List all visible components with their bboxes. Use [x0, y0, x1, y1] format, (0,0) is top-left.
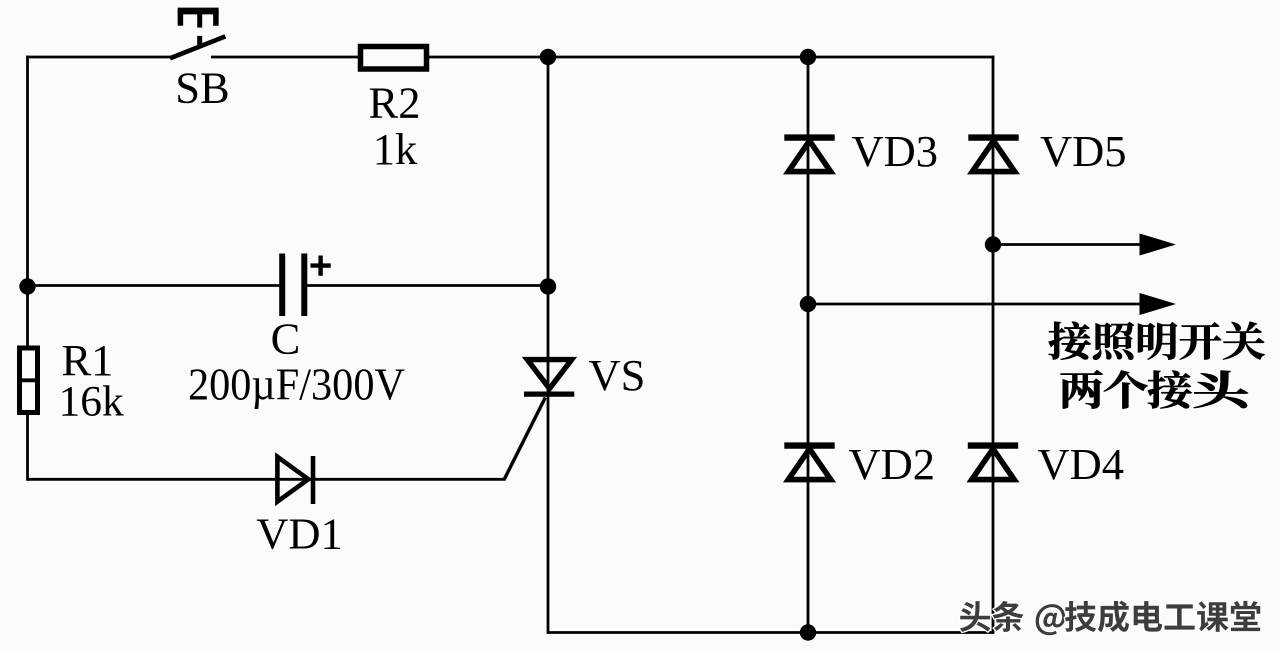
pushbutton SB actuator legs [180, 10, 216, 26]
node top bridge col1 junction [800, 49, 816, 65]
diode VD1 triangle [277, 457, 308, 502]
resistor R2 [361, 47, 427, 70]
pushbutton SB stem [197, 14, 202, 28]
svg-text:VD4: VD4 [1038, 439, 1125, 489]
diode VD5 cathode bar [968, 134, 1018, 140]
arrowhead output 1 [1140, 234, 1177, 256]
diode VD1 cathode bar [311, 456, 316, 504]
thyristor VS cathode bar [524, 391, 574, 396]
wire bridge column 2 vertical [992, 56, 995, 634]
diode VD2 cathode bar [784, 442, 834, 448]
capacitor C polarity plus [311, 256, 331, 276]
node top-center junction [540, 49, 556, 65]
diode VD2 triangle [788, 449, 830, 480]
capacitor C plate left [279, 254, 285, 317]
wire bottom horizontal [548, 631, 993, 634]
wire capacitor row left [28, 284, 280, 287]
svg-text:R2: R2 [369, 78, 421, 128]
diode VD3 triangle [788, 141, 830, 172]
node cap left junction [19, 278, 35, 294]
svg-text:200µF/300V: 200µF/300V [188, 359, 405, 410]
thyristor VS triangle [527, 360, 571, 389]
wire bottom-left through VD1 [28, 478, 505, 481]
svg-text:1k: 1k [373, 124, 418, 174]
svg-text:SB: SB [175, 63, 229, 113]
diode VD5 triangle [972, 141, 1014, 172]
node cap right junction [540, 278, 556, 294]
watermark: toutiao @ jicheng electrician classroom [960, 601, 990, 632]
wire output arrow 1 [993, 243, 1144, 246]
pushbutton SB stem dash [197, 36, 202, 47]
wire SB to R2 to bridge top [211, 56, 994, 59]
svg-text:VD5: VD5 [1040, 126, 1127, 176]
capacitor C plate right [301, 254, 307, 317]
diode VD3 cathode bar [784, 134, 834, 140]
pushbutton SB blade [170, 36, 225, 58]
annotation line 2: the two terminals [1060, 370, 1102, 409]
node output 1 junction [985, 236, 1001, 252]
wire center vertical through VS [547, 57, 550, 634]
wire capacitor row right [307, 284, 548, 287]
svg-text:VS: VS [589, 350, 646, 400]
svg-text:VD1: VD1 [256, 509, 343, 559]
node output 2 junction [800, 296, 816, 312]
annotation line 1: connect to lighting switch [1049, 322, 1091, 360]
diode VD4 cathode bar [968, 442, 1018, 448]
wire bridge column 1 vertical [807, 57, 810, 633]
svg-text:VD3: VD3 [852, 126, 939, 176]
arrowhead output 2 [1140, 293, 1177, 315]
svg-text:16k: 16k [59, 378, 125, 426]
node bottom bridge col1 junction [800, 624, 816, 640]
resistor R1 [20, 348, 38, 413]
wire output arrow 2 [808, 303, 1144, 306]
wire left vertical [26, 56, 29, 481]
wire gate diagonal [504, 398, 546, 481]
wire top-left horizontal to SB [26, 56, 171, 59]
diode VD4 triangle [972, 449, 1014, 480]
svg-text:VD2: VD2 [849, 439, 936, 489]
svg-text:C: C [271, 314, 301, 364]
pushbutton SB actuator bar [178, 8, 219, 15]
